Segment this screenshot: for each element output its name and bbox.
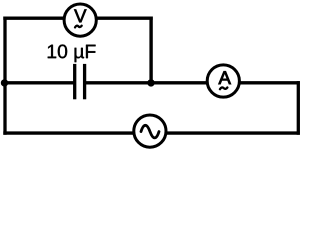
voltmeter letter V — [74, 10, 86, 23]
node: junction dot middle wire / voltmeter branch — [147, 79, 154, 86]
node: junction dot left bus / middle wire — [1, 79, 8, 86]
wire: bottom horizontal (through AC source) — [3, 131, 299, 134]
voltmeter tilde (AC) — [75, 26, 82, 28]
wire: middle horizontal, right of capacitor (through ammeter) — [85, 81, 300, 84]
ammeter A1 circle — [207, 65, 239, 97]
wire: top horizontal (through voltmeter) — [3, 17, 152, 20]
AC source G1 circle — [134, 115, 166, 147]
voltmeter V1 circle — [64, 4, 96, 36]
ammeter letter A — [219, 71, 231, 84]
wire: left vertical bus — [3, 17, 6, 135]
wire: right vertical — [297, 81, 300, 135]
wire: middle horizontal, left of capacitor — [3, 81, 74, 84]
wire: vertical drop from top wire to middle node — [149, 17, 152, 84]
label: 10 µF value of capacitor — [48, 45, 96, 63]
AC source sine wave — [141, 125, 159, 138]
capacitor C1 plates — [75, 64, 85, 99]
ammeter tilde (AC) — [220, 87, 228, 89]
